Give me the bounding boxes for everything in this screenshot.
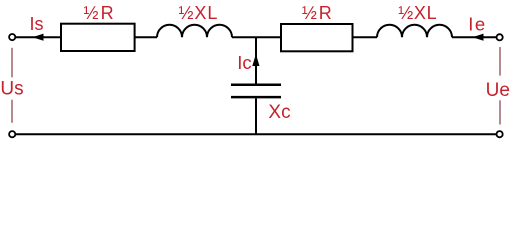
- inductor XL right: [377, 25, 452, 38]
- wire top-left: [16, 36, 61, 38]
- svg-text:Ic: Ic: [237, 52, 251, 73]
- svg-text:Xc: Xc: [268, 102, 290, 123]
- svg-text:Us: Us: [0, 78, 23, 99]
- terminal top-left: [9, 34, 15, 40]
- wire shunt branch vertical: [255, 37, 257, 84]
- voltage marker Us upper segment: [11, 48, 13, 78]
- wire resistor to inductor left: [135, 36, 157, 38]
- svg-text:Ue: Ue: [486, 80, 510, 101]
- svg-text:½R: ½R: [84, 3, 116, 23]
- svg-text:½XL: ½XL: [398, 3, 437, 23]
- capacitor Xc: [231, 85, 281, 97]
- arrow Ie: [473, 34, 484, 41]
- wire top-right: [452, 36, 496, 38]
- wire inductor to resistor 2: [232, 36, 281, 38]
- arrow Ic: [252, 54, 259, 66]
- voltage marker Us lower segment: [11, 100, 13, 123]
- svg-text:½XL: ½XL: [179, 3, 219, 23]
- inductor XL left: [157, 25, 232, 38]
- terminal bottom-right: [497, 131, 503, 137]
- voltage marker Ue upper segment: [499, 47, 501, 76]
- resistor R left: [61, 24, 135, 51]
- arrow Is: [33, 34, 44, 41]
- svg-text:Ie: Ie: [468, 13, 486, 34]
- resistor R right: [281, 24, 353, 51]
- wire resistor 2 to inductor 2: [353, 36, 378, 38]
- svg-text:Is: Is: [30, 14, 44, 34]
- terminal bottom-left: [9, 131, 15, 137]
- svg-text:½R: ½R: [302, 3, 334, 23]
- voltage marker Ue lower segment: [499, 100, 501, 124]
- wire capacitor to bottom: [255, 98, 257, 135]
- terminal top-right: [497, 34, 503, 40]
- wire bottom: [16, 133, 496, 135]
